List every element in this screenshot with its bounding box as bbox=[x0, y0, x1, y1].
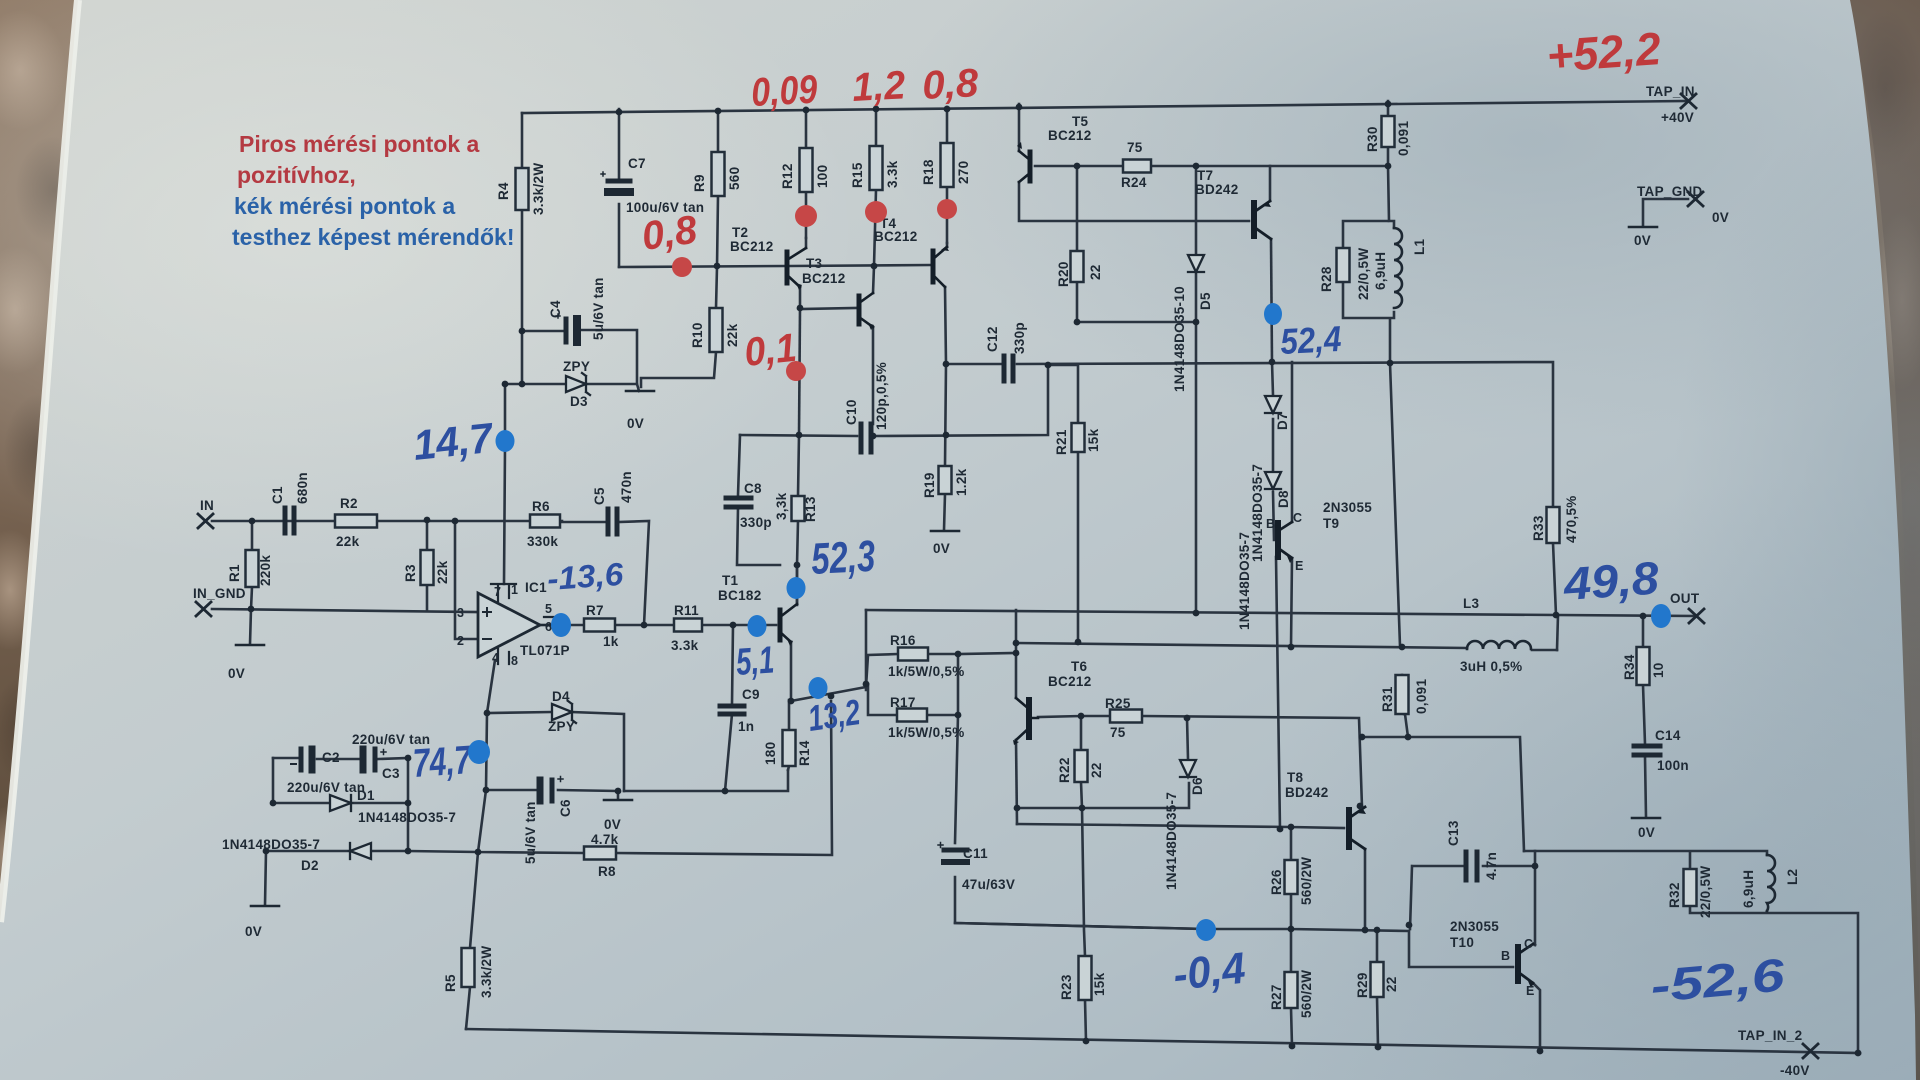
inductor L1 bbox=[1394, 228, 1402, 308]
svg-text:T2: T2 bbox=[732, 225, 748, 240]
capacitor C6 bbox=[540, 777, 563, 802]
wire C13 line bbox=[1410, 866, 1535, 929]
wire T1 emitter line bbox=[791, 642, 866, 701]
wire T3 legs bbox=[800, 238, 806, 309]
capacitor C11 bbox=[938, 843, 967, 863]
wire R22 D6 bottom line bbox=[1017, 783, 1189, 808]
wire +40V top rail bbox=[522, 101, 1688, 113]
label C7 bbox=[626, 156, 704, 215]
svg-text:C: C bbox=[1524, 937, 1533, 951]
svg-text:BC212: BC212 bbox=[1048, 128, 1092, 143]
resistor R8 bbox=[584, 847, 616, 860]
svg-text:10: 10 bbox=[1651, 662, 1666, 678]
svg-text:BD242: BD242 bbox=[1195, 182, 1239, 197]
node R21 junctions bbox=[1075, 639, 1082, 646]
svg-text:22k: 22k bbox=[725, 323, 740, 347]
label R24 bbox=[1121, 140, 1147, 190]
svg-text:470,5%: 470,5% bbox=[1564, 495, 1579, 543]
measurement dot blue OUT bbox=[1651, 604, 1671, 628]
transistor T6 bbox=[1013, 698, 1038, 745]
svg-text:560/2W: 560/2W bbox=[1299, 970, 1314, 1018]
faint paper shading bbox=[0, 0, 860, 570]
svg-text:R5: R5 bbox=[443, 974, 458, 992]
wire line y930 bbox=[955, 923, 1513, 967]
svg-text:1N4148DO35-10: 1N4148DO35-10 bbox=[1172, 286, 1187, 392]
svg-text:14,7: 14,7 bbox=[411, 414, 496, 469]
wire R22 bbox=[1081, 716, 1082, 808]
svg-text:T8: T8 bbox=[1287, 770, 1304, 785]
svg-text:L1: L1 bbox=[1412, 238, 1427, 255]
label R9 bbox=[692, 167, 742, 192]
ground at R19 0V bbox=[931, 530, 959, 533]
label R2 bbox=[336, 496, 360, 549]
svg-text:D5: D5 bbox=[1198, 292, 1213, 310]
resistor R24 bbox=[1123, 160, 1151, 173]
svg-text:74,7: 74,7 bbox=[412, 738, 474, 786]
svg-text:100: 100 bbox=[815, 165, 830, 188]
svg-text:0V: 0V bbox=[933, 541, 950, 556]
wire opamp V- column bbox=[486, 660, 495, 790]
resistor R21 bbox=[1072, 423, 1085, 452]
svg-text:0V: 0V bbox=[245, 924, 262, 939]
ground at D2 0V bbox=[251, 905, 279, 908]
label R19 bbox=[922, 468, 969, 556]
svg-text:1k/5W/0,5%: 1k/5W/0,5% bbox=[888, 725, 965, 740]
wire node line 0.8 bbox=[619, 266, 784, 267]
svg-text:0V: 0V bbox=[1634, 233, 1651, 248]
measurement dot blue opamp out bbox=[551, 613, 571, 637]
wire R16 line to T6 bbox=[958, 653, 1016, 654]
measurement dot blue T1 emitter bbox=[809, 677, 828, 699]
op-amp U1 TL071P bbox=[457, 583, 560, 668]
label C5 bbox=[592, 471, 634, 505]
label R7 bbox=[586, 603, 619, 649]
resistor R14 bbox=[783, 730, 796, 766]
label R8 bbox=[591, 832, 619, 879]
label D8 bbox=[1237, 490, 1291, 630]
capacitor C7 bbox=[601, 172, 630, 192]
svg-text:C4: C4 bbox=[548, 300, 563, 318]
svg-text:R8: R8 bbox=[598, 864, 616, 879]
label D4 bbox=[548, 689, 575, 734]
wire T4 legs bbox=[945, 243, 947, 364]
svg-text:C11: C11 bbox=[963, 846, 988, 861]
label R1 bbox=[227, 555, 273, 586]
capacitor C4 bbox=[556, 314, 577, 342]
capacitor C2 bbox=[291, 749, 312, 770]
svg-text:22: 22 bbox=[1384, 976, 1399, 992]
svg-text:C14: C14 bbox=[1655, 728, 1681, 743]
wire R16 R17 jogs bbox=[866, 654, 958, 715]
node input junctions bbox=[249, 518, 256, 525]
wire zpy bottom line bbox=[624, 770, 788, 791]
capacitor C14 bbox=[1634, 746, 1660, 755]
wire R30 column bbox=[1387, 101, 1390, 166]
resistor R5 bbox=[462, 948, 475, 987]
svg-text:4: 4 bbox=[492, 651, 499, 665]
svg-text:-40V: -40V bbox=[1780, 1063, 1810, 1078]
node 14.7 column junction bbox=[502, 381, 509, 388]
svg-text:E: E bbox=[1295, 559, 1303, 573]
svg-text:0V: 0V bbox=[1638, 825, 1655, 840]
label D1 bbox=[357, 788, 456, 825]
svg-text:R15: R15 bbox=[850, 162, 865, 188]
transistor T5 bbox=[1017, 142, 1030, 182]
wire R31 column bbox=[1390, 363, 1408, 737]
svg-text:BC212: BC212 bbox=[1048, 674, 1092, 689]
ground TAP_GND bbox=[1629, 226, 1657, 229]
resistor R22 bbox=[1075, 750, 1088, 782]
wire line y520 input bbox=[212, 521, 649, 625]
label R10 bbox=[690, 322, 740, 348]
transistor T1 bbox=[780, 604, 797, 646]
label C4 bbox=[548, 277, 606, 340]
svg-text:C1: C1 bbox=[270, 486, 285, 504]
wire R5 column bbox=[466, 790, 486, 1029]
resistor R23 bbox=[1079, 956, 1092, 1000]
svg-text:B: B bbox=[1266, 517, 1275, 531]
wire R23 column bbox=[1082, 808, 1086, 1041]
svg-text:BC212: BC212 bbox=[874, 229, 918, 244]
svg-text:R4: R4 bbox=[496, 182, 511, 200]
svg-text:R23: R23 bbox=[1059, 974, 1074, 1000]
label T2 bbox=[730, 225, 774, 254]
label R13 bbox=[774, 492, 818, 522]
label C12 bbox=[985, 322, 1027, 354]
svg-text:15k: 15k bbox=[1086, 428, 1101, 452]
label R27 bbox=[1269, 970, 1314, 1018]
svg-text:22: 22 bbox=[1088, 264, 1103, 280]
label R21 bbox=[1054, 428, 1101, 455]
resistor R2 bbox=[335, 515, 377, 528]
label OUT bbox=[1670, 591, 1700, 606]
svg-text:R25: R25 bbox=[1105, 696, 1131, 711]
diode D5 bbox=[1188, 255, 1204, 272]
svg-text:BD242: BD242 bbox=[1285, 785, 1329, 800]
wire T3 emitter column bbox=[799, 309, 800, 435]
wire node line to T4 bbox=[790, 265, 930, 266]
svg-text:R9: R9 bbox=[692, 174, 707, 192]
svg-text:C6: C6 bbox=[558, 799, 573, 817]
wire C9 column bbox=[725, 625, 733, 791]
svg-text:1,2: 1,2 bbox=[851, 63, 906, 110]
svg-text:R28: R28 bbox=[1319, 266, 1334, 292]
ground at R1 0V bbox=[236, 644, 264, 647]
resistor R11 bbox=[674, 619, 702, 632]
measurement dot red under R12 bbox=[795, 205, 817, 227]
wire T8 base line bbox=[1017, 824, 1344, 828]
svg-text:47u/63V: 47u/63V bbox=[962, 877, 1015, 892]
svg-text:-0,4: -0,4 bbox=[1171, 944, 1248, 1000]
wire T8 collector bbox=[1364, 849, 1367, 930]
svg-text:B: B bbox=[1501, 949, 1510, 963]
ground at C14 0V bbox=[1632, 817, 1660, 820]
note red measurement text block bbox=[232, 131, 514, 250]
svg-text:L2: L2 bbox=[1785, 869, 1800, 885]
svg-text:4.7n: 4.7n bbox=[1484, 852, 1499, 880]
svg-text:R11: R11 bbox=[674, 603, 699, 618]
inductor L3 bbox=[1467, 641, 1531, 649]
node y930 junctions bbox=[1288, 926, 1295, 933]
label T5 bbox=[1048, 114, 1092, 143]
wire C7 column bbox=[618, 109, 621, 267]
svg-text:52,3: 52,3 bbox=[810, 532, 876, 584]
svg-text:R16: R16 bbox=[890, 633, 916, 648]
svg-text:R7: R7 bbox=[586, 603, 604, 618]
svg-text:560/2W: 560/2W bbox=[1299, 857, 1314, 905]
resistor R16 bbox=[898, 648, 928, 661]
connector TAP_IN_2 X bbox=[1803, 1044, 1818, 1058]
wire T9 emitter bbox=[1291, 558, 1292, 647]
svg-text:0V: 0V bbox=[627, 416, 644, 431]
label L2 bbox=[1741, 869, 1800, 908]
svg-text:T6: T6 bbox=[1071, 659, 1088, 674]
transistor T10 bbox=[1518, 944, 1534, 988]
label R15 bbox=[850, 160, 900, 188]
label R22 bbox=[1057, 757, 1104, 783]
label T1 bbox=[718, 573, 762, 603]
svg-text:52,4: 52,4 bbox=[1279, 318, 1342, 362]
resistor R17 bbox=[897, 709, 927, 722]
wire line y646 out bbox=[1017, 643, 1557, 650]
resistor R25 bbox=[1110, 710, 1142, 723]
wire line y322 bbox=[1077, 321, 1196, 324]
wire C8 loop bbox=[737, 435, 780, 565]
svg-text:5u/6V tan: 5u/6V tan bbox=[523, 801, 538, 864]
measurement dot red under R15 bbox=[865, 201, 887, 223]
wire IN_GND line bbox=[212, 609, 478, 612]
transistor T4 bbox=[933, 246, 949, 287]
svg-text:D6: D6 bbox=[1190, 777, 1205, 795]
svg-text:6,9uH: 6,9uH bbox=[1741, 870, 1756, 908]
svg-text:TAP_IN_2: TAP_IN_2 bbox=[1738, 1028, 1802, 1043]
node T6 area junctions bbox=[1078, 713, 1085, 720]
node T8 junctions bbox=[1288, 824, 1295, 831]
wire T3b legs bbox=[873, 266, 874, 424]
svg-text:180: 180 bbox=[763, 742, 778, 765]
connector TAP_GND X bbox=[1688, 192, 1703, 206]
wire R1 column bbox=[250, 521, 252, 644]
label T10 bbox=[1450, 919, 1534, 998]
svg-text:C13: C13 bbox=[1446, 820, 1461, 846]
svg-text:7: 7 bbox=[494, 585, 501, 599]
measurement dot red 0,1 bbox=[786, 361, 806, 381]
label R6 bbox=[527, 499, 558, 549]
node R31 junctions bbox=[1405, 734, 1412, 741]
resistor R33 bbox=[1547, 507, 1560, 543]
label R11 bbox=[671, 603, 699, 653]
wire R28 L1 block bbox=[1343, 166, 1394, 363]
label R31 bbox=[1380, 679, 1429, 714]
svg-text:1N4148DO35-7: 1N4148DO35-7 bbox=[1237, 532, 1252, 630]
svg-text:1: 1 bbox=[511, 583, 518, 597]
resistor R13 bbox=[792, 496, 805, 521]
capacitor C3 bbox=[363, 749, 386, 770]
wire D3 link from R4 bbox=[505, 383, 522, 386]
svg-text:R32: R32 bbox=[1667, 882, 1682, 908]
resistor R31 bbox=[1396, 675, 1409, 714]
svg-text:R12: R12 bbox=[780, 163, 795, 189]
measurement dot blue T1 collector bbox=[787, 577, 806, 599]
svg-text:0,8: 0,8 bbox=[921, 61, 980, 108]
resistor R7 bbox=[584, 619, 615, 632]
wire C2 C3 line bbox=[273, 758, 408, 759]
node out line junctions bbox=[1193, 610, 1200, 617]
svg-text:R2: R2 bbox=[340, 496, 358, 511]
wire OUT line bbox=[866, 610, 1696, 616]
wire opamp minus column bbox=[455, 521, 478, 639]
label C1 bbox=[270, 472, 310, 504]
measurement dot red on 0.8 line bbox=[672, 257, 692, 277]
connector IN X bbox=[198, 514, 213, 528]
svg-text:3.3k: 3.3k bbox=[671, 638, 699, 653]
label IN bbox=[200, 498, 214, 513]
capacitor C5 bbox=[608, 509, 617, 534]
wire T10 legs bbox=[1533, 944, 1540, 1051]
wire R16R17 right column bbox=[955, 654, 1206, 929]
svg-text:R18: R18 bbox=[921, 159, 936, 185]
node y363 junctions bbox=[943, 361, 950, 368]
inductor L2 bbox=[1767, 855, 1775, 911]
svg-text:560: 560 bbox=[727, 167, 742, 190]
svg-text:D1: D1 bbox=[357, 788, 375, 803]
svg-text:C5: C5 bbox=[592, 487, 607, 505]
svg-text:IN: IN bbox=[200, 498, 214, 513]
svg-text:0,091: 0,091 bbox=[1396, 121, 1411, 156]
svg-text:22/0,5W: 22/0,5W bbox=[1356, 248, 1371, 300]
resistor R15 bbox=[870, 146, 883, 190]
svg-text:C12: C12 bbox=[985, 326, 1000, 352]
svg-text:75: 75 bbox=[1127, 140, 1143, 155]
transistor T8 bbox=[1349, 807, 1366, 849]
svg-text:D7: D7 bbox=[1275, 412, 1290, 430]
svg-text:R26: R26 bbox=[1269, 869, 1284, 895]
label R14 bbox=[763, 740, 812, 766]
label C8 bbox=[740, 481, 772, 530]
svg-text:+52,2: +52,2 bbox=[1545, 22, 1663, 82]
wire D2 line bbox=[265, 851, 408, 905]
wire R6 link bbox=[560, 520, 562, 523]
wire R8 line bbox=[408, 701, 832, 855]
label C13 bbox=[1446, 820, 1499, 880]
svg-text:OUT: OUT bbox=[1670, 591, 1700, 606]
svg-text:Piros mérési pontok a: Piros mérési pontok a bbox=[239, 131, 480, 157]
label ZPY D3 bbox=[563, 359, 644, 431]
svg-text:1k/5W/0,5%: 1k/5W/0,5% bbox=[888, 664, 965, 679]
wire D1 line bbox=[273, 758, 408, 803]
wire R27 column bbox=[1291, 929, 1292, 1046]
wire TAP_IN stub bbox=[1643, 199, 1688, 226]
svg-text:100n: 100n bbox=[1657, 758, 1689, 773]
svg-text:220k: 220k bbox=[258, 555, 273, 586]
label D7 bbox=[1250, 412, 1290, 562]
resistor R26 bbox=[1285, 860, 1298, 894]
svg-text:3.3k/2W: 3.3k/2W bbox=[479, 946, 494, 998]
wire D6 column bbox=[1187, 718, 1188, 759]
svg-text:470n: 470n bbox=[619, 471, 634, 503]
svg-text:22/0,5W: 22/0,5W bbox=[1698, 866, 1713, 918]
svg-text:C: C bbox=[1293, 511, 1302, 525]
wire R14 column bbox=[788, 700, 789, 770]
svg-text:R30: R30 bbox=[1365, 126, 1380, 152]
label T6 bbox=[1048, 659, 1092, 689]
svg-text:270: 270 bbox=[956, 161, 971, 184]
svg-text:T1: T1 bbox=[722, 573, 739, 588]
wire OUT feedback drop bbox=[865, 610, 868, 684]
svg-text:0V: 0V bbox=[228, 666, 245, 681]
svg-text:0,091: 0,091 bbox=[1414, 679, 1429, 714]
svg-text:6,9uH: 6,9uH bbox=[1373, 252, 1388, 290]
svg-text:R27: R27 bbox=[1269, 984, 1284, 1010]
wire R32 L2 block bbox=[1524, 851, 1858, 1053]
paper edge highlight bbox=[0, 0, 78, 922]
svg-text:R20: R20 bbox=[1056, 261, 1071, 287]
label R26 bbox=[1269, 857, 1314, 905]
svg-text:C9: C9 bbox=[742, 687, 760, 702]
transistor T3b bbox=[859, 293, 874, 330]
svg-text:330k: 330k bbox=[527, 534, 558, 549]
svg-text:330p: 330p bbox=[1012, 322, 1027, 354]
wire T5 collector bbox=[1019, 182, 1249, 221]
wire R3 column bbox=[426, 520, 429, 611]
resistor R4 bbox=[516, 168, 529, 210]
label R18 bbox=[921, 159, 971, 185]
svg-text:2N3055: 2N3055 bbox=[1450, 919, 1499, 934]
svg-text:T10: T10 bbox=[1450, 935, 1474, 950]
svg-text:D3: D3 bbox=[570, 394, 588, 409]
svg-text:0,09: 0,09 bbox=[750, 68, 819, 115]
wire R13 column bbox=[797, 435, 799, 605]
node top rail junctions bbox=[616, 109, 623, 116]
wire C6 line bbox=[486, 790, 618, 799]
wire bottom -40V rail bbox=[466, 1029, 1860, 1053]
connector OUT X bbox=[1689, 609, 1704, 623]
svg-text:R24: R24 bbox=[1121, 175, 1147, 190]
svg-text:T5: T5 bbox=[1072, 114, 1089, 129]
diode D3 ZPY bbox=[566, 373, 590, 395]
label D6 bbox=[1164, 777, 1205, 890]
label R28 bbox=[1319, 248, 1371, 300]
svg-text:TAP_IN: TAP_IN bbox=[1646, 84, 1695, 99]
wire C4 branch bbox=[522, 330, 637, 384]
label R34 bbox=[1622, 654, 1666, 680]
wire D5 column bbox=[1195, 166, 1198, 613]
svg-text:R34: R34 bbox=[1622, 654, 1637, 680]
resistor R6 bbox=[530, 515, 560, 528]
capacitor C8 bbox=[726, 498, 751, 507]
resistor R32 bbox=[1684, 869, 1697, 906]
svg-text:13,2: 13,2 bbox=[805, 691, 862, 739]
label R30 bbox=[1365, 121, 1411, 156]
wire 14.7 column to pin7 bbox=[504, 384, 505, 584]
svg-text:R6: R6 bbox=[532, 499, 550, 514]
svg-text:3.3k: 3.3k bbox=[885, 160, 900, 188]
label R12 bbox=[780, 163, 830, 189]
wire T9 collector bbox=[1291, 362, 1294, 522]
svg-text:R3: R3 bbox=[403, 564, 418, 582]
wire R19 column bbox=[944, 364, 946, 530]
label TAP_GND bbox=[1634, 184, 1729, 248]
svg-text:2N3055: 2N3055 bbox=[1323, 500, 1372, 515]
wire L3 riser bbox=[1557, 615, 1558, 650]
label R23 bbox=[1059, 972, 1107, 1000]
connector TAP_IN X bbox=[1681, 94, 1696, 108]
wire R21 column bbox=[1048, 365, 1078, 642]
node bottom rail junctions bbox=[1083, 1038, 1090, 1045]
svg-text:5: 5 bbox=[545, 602, 552, 616]
resistor R19 bbox=[939, 466, 952, 494]
resistor R29 bbox=[1371, 962, 1384, 997]
